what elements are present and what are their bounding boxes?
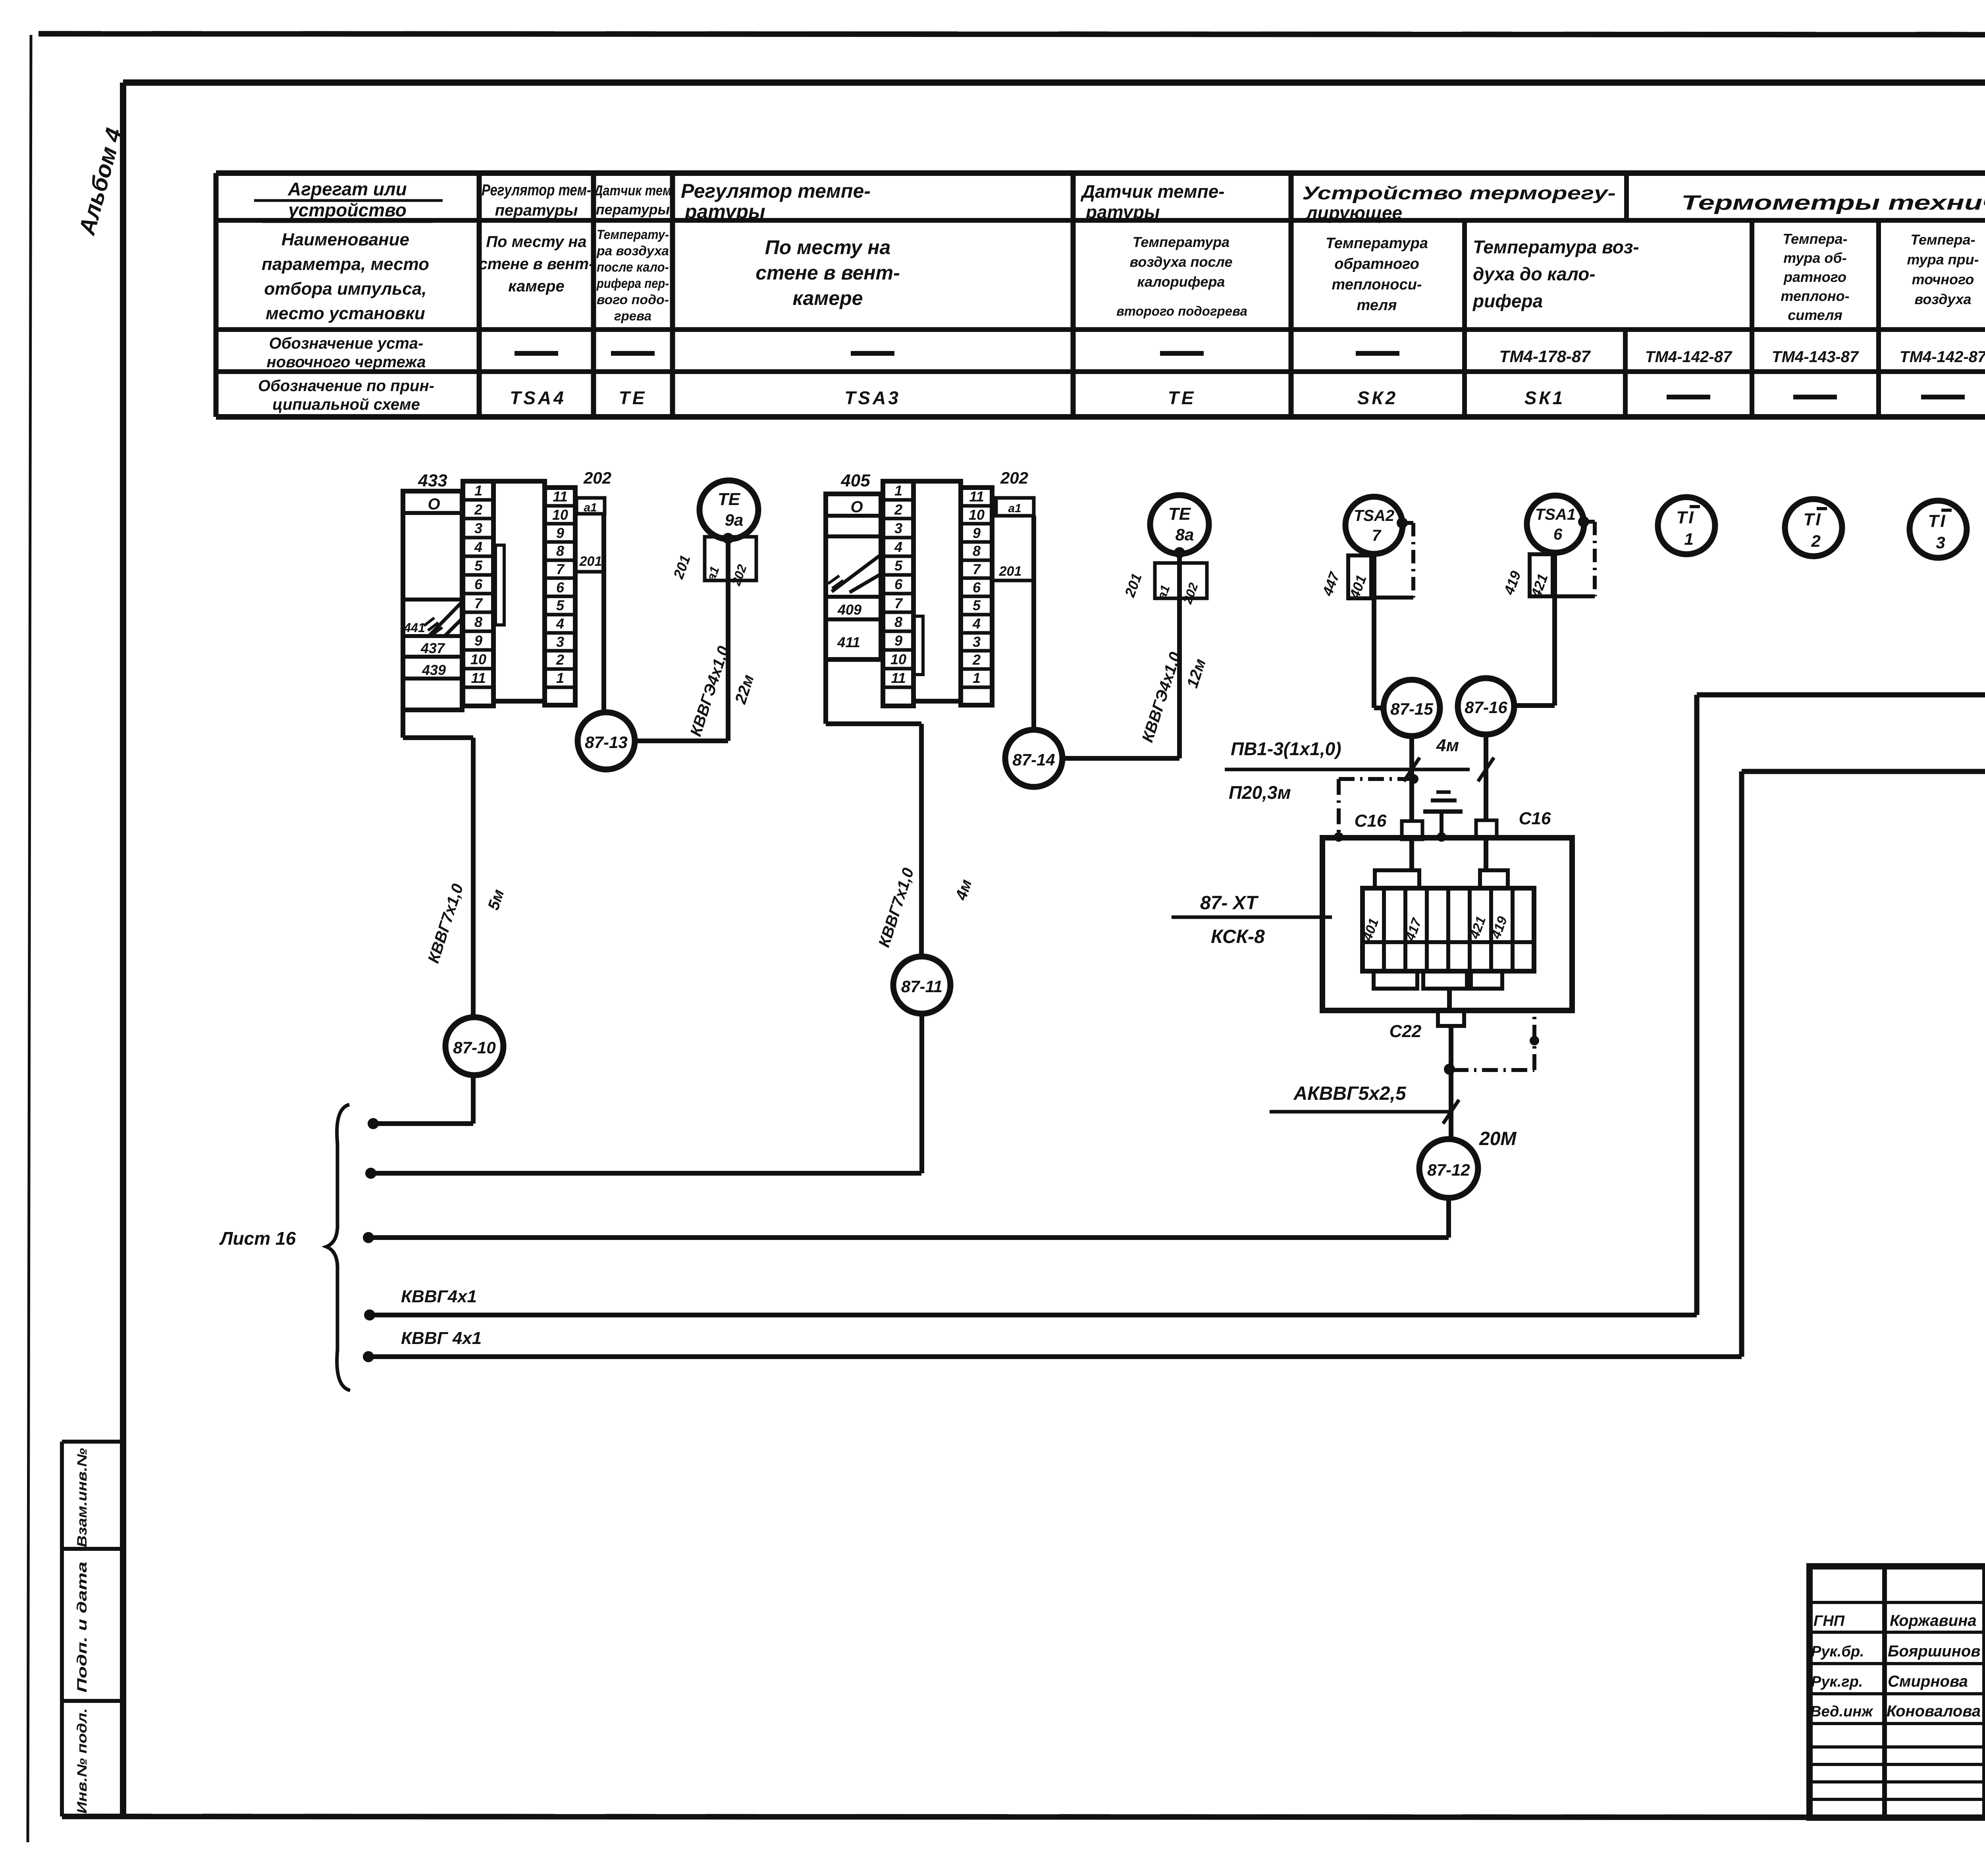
svg-text:ТI: ТI xyxy=(1803,510,1822,529)
svg-text:ТSА4: ТSА4 xyxy=(510,388,566,408)
svg-text:Температура: Температура xyxy=(1326,235,1428,252)
svg-text:ТSА1: ТSА1 xyxy=(1535,506,1576,523)
svg-text:3: 3 xyxy=(474,520,482,536)
svg-text:обратного: обратного xyxy=(1334,256,1419,272)
svg-text:5: 5 xyxy=(474,557,483,574)
svg-text:411: 411 xyxy=(837,634,860,650)
svg-text:пературы: пературы xyxy=(596,201,670,218)
svg-text:стене в вент-: стене в вент- xyxy=(479,255,594,273)
svg-text:87-12: 87-12 xyxy=(1427,1161,1470,1179)
svg-text:ТМ4-178-87: ТМ4-178-87 xyxy=(1499,347,1591,366)
svg-text:Температу-: Температу- xyxy=(597,227,669,242)
svg-text:Термометры технические: Термометры технические xyxy=(1681,191,1985,214)
svg-text:Взам.инв.№: Взам.инв.№ xyxy=(75,1448,90,1547)
svg-text:7: 7 xyxy=(894,595,903,611)
svg-text:405: 405 xyxy=(840,471,870,490)
svg-text:6: 6 xyxy=(973,579,981,596)
svg-text:201: 201 xyxy=(999,564,1022,579)
svg-text:4: 4 xyxy=(972,615,981,632)
svg-text:АКВВГ5х2,5: АКВВГ5х2,5 xyxy=(1293,1083,1406,1104)
svg-text:8: 8 xyxy=(973,543,981,559)
svg-text:87-15: 87-15 xyxy=(1390,700,1433,718)
svg-text:Рук.гр.: Рук.гр. xyxy=(1811,1674,1863,1690)
svg-text:ТМ4-143-87: ТМ4-143-87 xyxy=(1772,348,1859,366)
svg-text:грева: грева xyxy=(614,308,651,323)
svg-text:10: 10 xyxy=(552,507,568,523)
svg-text:Устройство терморегу-: Устройство терморегу- xyxy=(1302,183,1616,203)
svg-text:камере: камере xyxy=(793,287,863,309)
svg-text:4: 4 xyxy=(894,539,902,555)
svg-text:1: 1 xyxy=(894,482,902,499)
svg-text:Коржавина: Коржавина xyxy=(1890,1612,1977,1629)
svg-text:ратуры: ратуры xyxy=(1085,202,1160,222)
svg-text:ТSА3: ТSА3 xyxy=(844,388,901,408)
svg-text:202: 202 xyxy=(1000,469,1028,487)
svg-text:2: 2 xyxy=(474,501,482,518)
svg-text:Датчик темпе-: Датчик темпе- xyxy=(1080,181,1225,202)
svg-text:2: 2 xyxy=(1811,532,1820,550)
svg-text:точного: точного xyxy=(1912,271,1974,287)
svg-text:ТI: ТI xyxy=(1676,508,1695,527)
svg-text:6: 6 xyxy=(894,576,903,592)
svg-text:Вед.инж: Вед.инж xyxy=(1810,1703,1873,1720)
svg-text:ТI: ТI xyxy=(1928,511,1946,531)
svg-text:ПВ1-3(1х1,0): ПВ1-3(1х1,0) xyxy=(1231,738,1341,759)
svg-text:ГНП: ГНП xyxy=(1813,1613,1845,1629)
svg-text:9: 9 xyxy=(894,632,902,649)
svg-text:Инв.№ подл.: Инв.№ подл. xyxy=(75,1708,90,1814)
svg-text:Рук.бр.: Рук.бр. xyxy=(1811,1643,1864,1660)
svg-text:а1: а1 xyxy=(1008,502,1021,515)
svg-text:Температура воз-: Температура воз- xyxy=(1473,237,1639,257)
svg-text:вого подо-: вого подо- xyxy=(597,292,669,307)
svg-text:6: 6 xyxy=(556,579,565,596)
svg-text:2: 2 xyxy=(972,652,981,668)
svg-text:место установки: место установки xyxy=(266,304,425,323)
svg-text:стене в вент-: стене в вент- xyxy=(755,262,900,284)
svg-text:87-13: 87-13 xyxy=(585,733,627,752)
svg-text:ТМ4-142-87: ТМ4-142-87 xyxy=(1900,348,1985,366)
svg-text:П20,3м: П20,3м xyxy=(1229,782,1291,803)
svg-text:437: 437 xyxy=(420,640,445,656)
svg-text:87-11: 87-11 xyxy=(901,977,942,996)
svg-text:1: 1 xyxy=(474,482,482,499)
svg-text:8а: 8а xyxy=(1176,525,1194,544)
svg-text:SК2: SК2 xyxy=(1357,388,1398,408)
svg-text:6: 6 xyxy=(1553,526,1563,543)
svg-text:Регулятор тем-: Регулятор тем- xyxy=(482,181,591,199)
svg-text:87-14: 87-14 xyxy=(1012,750,1055,769)
svg-text:433: 433 xyxy=(418,471,447,490)
svg-text:9а: 9а xyxy=(725,511,744,529)
svg-text:КВВГ 4х1: КВВГ 4х1 xyxy=(401,1328,482,1348)
svg-text:параметра, место: параметра, место xyxy=(262,255,429,274)
svg-text:2: 2 xyxy=(894,501,902,518)
svg-text:Бояршинов: Бояршинов xyxy=(1888,1643,1981,1660)
svg-text:По месту на: По месту на xyxy=(765,236,891,258)
svg-text:3: 3 xyxy=(556,634,564,650)
svg-text:Коновалова: Коновалова xyxy=(1887,1702,1981,1720)
svg-text:сителя: сителя xyxy=(1788,307,1842,323)
svg-text:Смирнова: Смирнова xyxy=(1888,1673,1968,1690)
svg-text:новочного чертежа: новочного чертежа xyxy=(267,353,426,371)
svg-text:КСК-8: КСК-8 xyxy=(1211,926,1265,947)
svg-text:2: 2 xyxy=(556,652,564,668)
svg-text:рифера пер-: рифера пер- xyxy=(596,276,669,291)
svg-text:По месту на: По месту на xyxy=(486,233,586,251)
svg-text:Темпера-: Темпера- xyxy=(1910,231,1975,248)
svg-text:9: 9 xyxy=(556,525,564,541)
svg-text:теплоноси-: теплоноси- xyxy=(1332,276,1422,293)
svg-text:Лист 16: Лист 16 xyxy=(219,1228,296,1249)
svg-text:С16: С16 xyxy=(1519,809,1551,828)
svg-text:409: 409 xyxy=(837,602,861,618)
svg-text:11: 11 xyxy=(471,670,486,686)
svg-text:8: 8 xyxy=(474,614,482,630)
svg-text:7: 7 xyxy=(973,561,981,577)
svg-text:теля: теля xyxy=(1357,297,1397,314)
svg-text:6: 6 xyxy=(474,576,483,592)
svg-text:ТЕ: ТЕ xyxy=(1168,504,1191,524)
svg-text:7: 7 xyxy=(1372,527,1382,544)
svg-text:ТЕ: ТЕ xyxy=(619,388,647,408)
svg-text:9: 9 xyxy=(474,632,482,649)
svg-text:Агрегат или: Агрегат или xyxy=(287,179,407,199)
svg-text:441: 441 xyxy=(403,621,425,635)
svg-text:ратного: ратного xyxy=(1783,269,1846,285)
svg-text:после кало-: после кало- xyxy=(597,260,669,274)
svg-text:3: 3 xyxy=(973,634,981,650)
svg-text:Темпера-: Темпера- xyxy=(1783,231,1847,247)
svg-text:тура при-: тура при- xyxy=(1907,251,1979,268)
svg-text:ТМ4-142-87: ТМ4-142-87 xyxy=(1645,348,1733,366)
svg-text:11: 11 xyxy=(969,488,984,505)
svg-text:202: 202 xyxy=(583,469,611,487)
svg-text:11: 11 xyxy=(891,670,906,686)
svg-text:Обозначение уста-: Обозначение уста- xyxy=(269,335,424,352)
svg-text:Наименование: Наименование xyxy=(281,230,409,249)
svg-text:теплоно-: теплоно- xyxy=(1781,288,1849,304)
svg-text:второго подогрева: второго подогрева xyxy=(1116,304,1247,318)
svg-text:9: 9 xyxy=(973,525,981,541)
svg-text:КВВГ4х1: КВВГ4х1 xyxy=(401,1287,477,1306)
svg-text:калорифера: калорифера xyxy=(1137,274,1225,290)
svg-text:1: 1 xyxy=(1684,530,1693,548)
svg-text:лирующее: лирующее xyxy=(1305,202,1402,223)
svg-text:10: 10 xyxy=(969,507,985,523)
svg-text:4: 4 xyxy=(474,539,482,555)
svg-text:рифера: рифера xyxy=(1472,291,1543,311)
svg-text:3: 3 xyxy=(894,520,902,536)
svg-text:ципиальной схеме: ципиальной схеме xyxy=(272,396,420,413)
svg-text:87-10: 87-10 xyxy=(453,1038,495,1057)
svg-text:пературы: пературы xyxy=(495,202,578,219)
svg-text:7: 7 xyxy=(474,595,483,611)
svg-text:87-16: 87-16 xyxy=(1465,698,1507,717)
svg-text:439: 439 xyxy=(422,662,446,678)
svg-text:ТЕ: ТЕ xyxy=(718,490,741,509)
svg-text:тура об-: тура об- xyxy=(1783,250,1846,266)
svg-text:устройство: устройство xyxy=(287,200,407,220)
svg-text:87- ХТ: 87- ХТ xyxy=(1200,893,1259,914)
svg-text:ратуры: ратуры xyxy=(684,201,765,223)
svg-text:ТSА2: ТSА2 xyxy=(1354,507,1394,524)
svg-text:8: 8 xyxy=(556,543,564,559)
svg-text:ТЕ: ТЕ xyxy=(1168,388,1196,408)
svg-text:20М: 20М xyxy=(1479,1128,1517,1149)
svg-text:SК1: SК1 xyxy=(1524,388,1565,408)
svg-text:воздуха: воздуха xyxy=(1914,291,1971,307)
svg-text:отбора импульса,: отбора импульса, xyxy=(264,279,426,299)
svg-text:1: 1 xyxy=(973,670,981,686)
svg-text:С22: С22 xyxy=(1389,1022,1422,1041)
svg-text:С16: С16 xyxy=(1355,811,1387,831)
svg-text:камере: камере xyxy=(508,278,565,295)
svg-text:Подп. и дата: Подп. и дата xyxy=(75,1562,90,1693)
svg-text:4м: 4м xyxy=(1436,736,1459,755)
svg-text:О: О xyxy=(428,496,440,513)
svg-text:11: 11 xyxy=(553,488,567,505)
svg-text:4: 4 xyxy=(556,615,564,632)
svg-text:ра воздуха: ра воздуха xyxy=(596,243,669,258)
svg-text:10: 10 xyxy=(470,651,486,667)
svg-text:10: 10 xyxy=(890,651,906,667)
svg-text:7: 7 xyxy=(556,561,565,577)
svg-text:а1: а1 xyxy=(584,501,597,514)
svg-text:5: 5 xyxy=(894,557,903,574)
svg-text:Регулятор темпе-: Регулятор темпе- xyxy=(681,180,871,202)
svg-text:5: 5 xyxy=(973,597,981,613)
svg-text:5: 5 xyxy=(556,597,565,613)
svg-text:Температура: Температура xyxy=(1133,234,1230,250)
svg-text:воздуха после: воздуха после xyxy=(1130,254,1233,270)
svg-text:Обозначение по прин-: Обозначение по прин- xyxy=(258,377,434,395)
svg-text:Датчик тем: Датчик тем xyxy=(593,182,672,199)
svg-text:О: О xyxy=(850,498,863,516)
svg-text:3: 3 xyxy=(1936,533,1945,552)
svg-text:1: 1 xyxy=(556,670,564,686)
svg-text:201: 201 xyxy=(579,554,602,569)
svg-text:духа до кало-: духа до кало- xyxy=(1473,264,1596,284)
svg-text:8: 8 xyxy=(894,614,902,630)
